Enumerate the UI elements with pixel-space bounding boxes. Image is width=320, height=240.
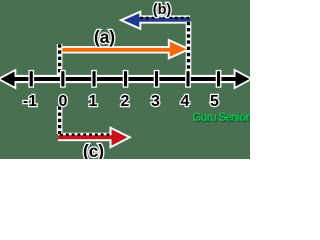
dashed guide at 0 (lower segment) <box>57 106 63 134</box>
dashed overlay on (c) <box>60 133 111 135</box>
svg-text:0: 0 <box>59 93 68 110</box>
svg-text:(a): (a) <box>94 27 115 47</box>
red arrow (c) <box>58 129 128 145</box>
tick 1 <box>93 71 96 86</box>
tick 0 <box>61 71 64 86</box>
svg-text:(b): (b) <box>153 2 172 18</box>
axis right arrowhead <box>236 72 250 87</box>
svg-text:Guru Seniora: Guru Seniora <box>192 112 250 124</box>
tick 3 <box>155 71 158 86</box>
dashed guide at 4 <box>186 22 192 78</box>
blue arrow (b) <box>124 13 191 27</box>
tick 5 <box>217 71 220 86</box>
axis left arrowhead <box>1 72 15 87</box>
svg-text:-1: -1 <box>23 93 37 110</box>
svg-text:5: 5 <box>210 93 219 110</box>
svg-text:1: 1 <box>89 93 98 110</box>
svg-text:2: 2 <box>121 93 130 110</box>
orange arrow (a) <box>60 42 187 57</box>
svg-text:4: 4 <box>181 93 190 110</box>
svg-text:3: 3 <box>151 93 160 110</box>
dashed guide at 0 (upper segment) <box>57 44 63 77</box>
tick -1 <box>30 71 33 86</box>
number line axis <box>1 72 250 87</box>
tick 4 <box>187 71 190 86</box>
tick 2 <box>124 71 127 86</box>
svg-text:(c): (c) <box>83 141 104 159</box>
dashed overlay on (b) <box>140 17 189 19</box>
